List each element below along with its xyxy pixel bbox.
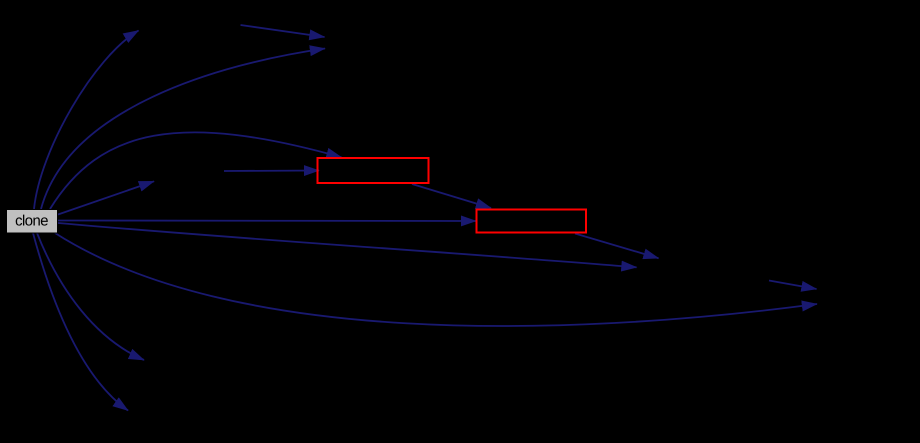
wire edge C clone->red box 1 top [50,132,342,209]
wire edge K hidden node->upper node [241,25,325,37]
node red box 2 [477,210,587,233]
wire edge H clone->far right node [55,233,817,326]
wire edge M hidden node->far right node [769,281,817,290]
wire edge B clone->upper right node [41,49,325,210]
wire edge J clone->bottom node [33,233,128,411]
wire edge D clone->mid node [58,181,154,214]
wire edge A clone->top node [34,31,139,210]
node clone [7,210,58,234]
wire edge I clone->lower left node [37,233,144,360]
node red box 1 [318,158,429,183]
wire edge N red box 1->red box 2 [412,184,491,208]
wire edge G clone->lower mid node [58,223,637,267]
wire edge F clone->red box 2 left [58,220,476,223]
wire edge E hidden node->red box 1 left [224,170,319,173]
wire edge O red box 2->lower right node [575,234,659,259]
